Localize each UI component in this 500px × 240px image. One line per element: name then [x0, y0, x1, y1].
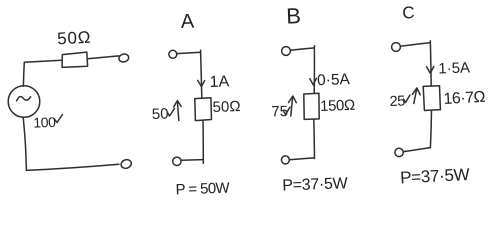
value label 100V [33, 114, 56, 131]
svg-text:B: B [286, 3, 302, 28]
voltage label 50V [152, 105, 169, 123]
wire B bottom [313, 119, 316, 158]
voltage arrow up (B) [291, 96, 293, 116]
svg-text:1A: 1A [209, 73, 229, 91]
checkmark V (75V) [284, 107, 291, 115]
value label 50Ω (A) [212, 98, 240, 116]
resistor B 150Ω [304, 93, 319, 119]
power label P=50W (A) [175, 180, 230, 199]
checkmark V (50V) [168, 109, 175, 117]
svg-text:16·7Ω: 16·7Ω [443, 89, 486, 108]
voltage arrow up (A) [177, 101, 178, 120]
svg-text:100: 100 [33, 114, 56, 131]
sine symbol [17, 97, 31, 101]
terminal B top (open) [282, 47, 291, 56]
option label C [402, 3, 415, 22]
svg-text:0·5A: 0·5A [317, 71, 351, 89]
svg-text:50Ω: 50Ω [212, 98, 240, 116]
terminal A bottom (open) [173, 157, 181, 165]
current label 0.5A [317, 71, 351, 89]
power label P=37.5W (C) [400, 165, 470, 188]
value label 16.7Ω (C) [443, 89, 486, 108]
option label A [180, 11, 195, 33]
resistor R series 50Ω [62, 52, 88, 67]
current label 1.5A [438, 59, 470, 77]
terminal bottom-right (open) [120, 158, 132, 169]
svg-text:25: 25 [389, 93, 405, 110]
wire A top [177, 52, 202, 98]
voltage label 25V [389, 93, 405, 110]
terminal top-right (open) [118, 53, 129, 63]
svg-text:50Ω: 50Ω [57, 28, 92, 49]
voltage arrow up (C) [414, 88, 417, 103]
svg-text:150Ω: 150Ω [320, 97, 355, 115]
option label B [286, 3, 302, 28]
wire C bottom [430, 111, 431, 148]
svg-text:A: A [180, 11, 195, 33]
wire bottom (to terminal) [26, 164, 119, 170]
current label 1A [209, 73, 229, 91]
resistor A 50Ω [195, 98, 212, 121]
current arrow 1.5A (down) [427, 67, 434, 74]
svg-text:50: 50 [152, 105, 169, 123]
value label 150Ω (B) [320, 97, 355, 115]
value label 50Ω (series resistor) [57, 28, 92, 49]
terminal C top (open) [392, 43, 401, 52]
svg-text:C: C [402, 3, 415, 22]
wire top-left (source to resistor) [25, 60, 63, 62]
wire C top [401, 43, 432, 86]
terminal A top (open) [169, 50, 177, 58]
terminal C bottom (open) [395, 148, 403, 156]
current arrow 0.5A (down) [310, 78, 317, 85]
voltage label 75V [271, 103, 288, 121]
checkmark V (100V) [55, 115, 63, 123]
svg-text:P = 50W: P = 50W [175, 180, 230, 199]
svg-text:1·5A: 1·5A [438, 59, 470, 77]
power label P=37.5W (B) [282, 175, 349, 194]
wire resistor to top terminal [88, 56, 119, 59]
wire A bottom [202, 121, 204, 164]
terminal B bottom (open) [281, 156, 289, 164]
checkmark V (25V) [404, 95, 411, 103]
svg-text:P=37·5W: P=37·5W [400, 165, 470, 188]
wire source top lead [22, 62, 25, 86]
wire source bottom lead [23, 117, 26, 170]
svg-text:75: 75 [271, 103, 288, 121]
current arrow 1A (down) [198, 80, 205, 86]
svg-text:P=37·5W: P=37·5W [282, 175, 349, 194]
AC source V1 100V [8, 86, 40, 118]
resistor C 16.7Ω [423, 86, 440, 111]
wire B top [291, 48, 315, 93]
